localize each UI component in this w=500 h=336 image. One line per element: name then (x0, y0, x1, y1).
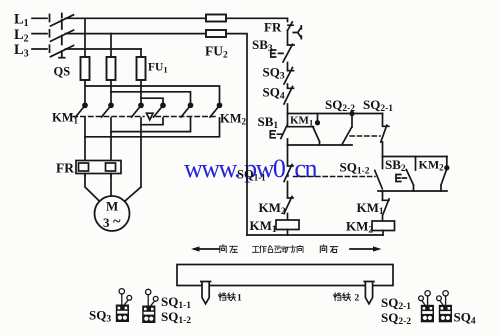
contactor KM2 main contact 1 (154, 103, 166, 117)
label SQ2-2 (325, 97, 355, 114)
self-holding contact KM1 (288, 114, 320, 146)
label xiang-zuo (to left) (220, 245, 237, 253)
svg-text:M: M (106, 199, 118, 214)
wire L3 to drop (66, 48, 142, 50)
coil KM1 (276, 220, 299, 230)
svg-text:3: 3 (103, 215, 110, 230)
label SQ3 bottom (89, 308, 111, 325)
label dang-tie 1 (219, 293, 236, 301)
label SB2 (385, 157, 406, 174)
watermark www.pw0.cn (184, 154, 317, 183)
wire tap L3 to KM2 contact 1 (141, 98, 163, 104)
wire below KM1 c2 (110, 118, 112, 176)
svg-text:~: ~ (113, 214, 121, 230)
limit switch contact SQ4 (284, 87, 294, 105)
limit switch icon SQ4 (437, 291, 452, 323)
label SQ1-2 bottom (161, 309, 191, 326)
limit switch icon SQ1 (142, 289, 158, 323)
arrow left direction (191, 246, 220, 251)
label SQ1-1 bottom (161, 294, 191, 311)
fuse FU2-2 (206, 30, 226, 37)
wire (84, 80, 86, 104)
wire coil KM1 to bottom bus (287, 230, 289, 236)
interlock contact KM1 (383, 199, 390, 221)
dog 2 (stop iron 2) (364, 282, 374, 304)
FR heater element 2 (106, 163, 116, 171)
label SQ2-1 (363, 97, 393, 114)
coil KM2 (372, 221, 395, 231)
svg-text:FR: FR (264, 20, 282, 35)
wire L1 to control (226, 18, 288, 21)
label KM2 main (220, 112, 247, 127)
wire tier separator (415, 157, 417, 171)
wire (287, 84, 289, 88)
wire L2 to left rail (226, 34, 247, 235)
wire tier top (383, 156, 448, 158)
label xiang-you (to right) (320, 245, 337, 253)
wire to motor V (110, 174, 112, 197)
disconnect switch QS pole 1 (51, 15, 74, 26)
label KM2 coil (346, 219, 373, 236)
wire tier bottom (378, 190, 447, 192)
limit switch icon SQ3 (116, 289, 132, 322)
node L2 (14, 27, 29, 45)
contactor KM2 main contact 2 (181, 103, 193, 117)
svg-text:FR: FR (56, 161, 74, 176)
label KM1 coil (250, 218, 277, 235)
mechanical link SQ1 dashed (294, 176, 376, 178)
wire (110, 80, 112, 104)
stop pushbutton SB3 (271, 44, 294, 62)
QS linkage (61, 14, 63, 58)
wire (140, 80, 142, 104)
label FR control (264, 20, 282, 35)
wire L1 lead (32, 15, 50, 22)
svg-text:2: 2 (355, 294, 360, 304)
limit switch contact SQ3 (284, 68, 294, 85)
disconnect switch QS pole 2 (51, 30, 74, 41)
limit switch contact SQ1-1 (284, 145, 293, 198)
wire phase W vertical from L3 (140, 49, 142, 57)
label QS (54, 65, 71, 79)
motor M 3~ (95, 196, 130, 231)
wire branch lower bus (288, 144, 353, 146)
label KM2 interlock (259, 200, 286, 217)
wire L3 lead (32, 45, 50, 52)
wire to motor W (125, 187, 142, 202)
contactor KM1 main contact 3 (132, 103, 144, 117)
worktable (177, 265, 393, 286)
fuse FU1-3 (137, 57, 146, 80)
wire below KM1 c1 (84, 118, 86, 176)
node L1 (14, 12, 29, 30)
wire bottom bus (247, 234, 383, 236)
contactor KM2 main contact 3 (210, 103, 222, 117)
label FU2 (205, 44, 228, 61)
limit switch icon SQ2 (419, 291, 434, 323)
wire KM2 c1 return (141, 118, 163, 125)
thermal relay FR control contact (288, 22, 302, 39)
wire branch top bus (288, 113, 383, 115)
interlock contact KM2 (284, 197, 293, 221)
wire L2 lead (32, 30, 50, 37)
wire tap L2 to KM2 contact 2 (111, 92, 191, 104)
wire (287, 31, 289, 45)
wire phase U vertical from L1 (84, 18, 86, 57)
start pushbutton SB1 (270, 114, 287, 146)
contactor KM1 main contact 2 (102, 103, 114, 117)
label KM1 self-hold (290, 115, 313, 128)
linkage pivot triangle (147, 113, 154, 120)
label FR main (56, 161, 74, 176)
mechanical linkage dashed (73, 116, 218, 118)
svg-text:QS: QS (54, 65, 71, 79)
wire tier to interlock (382, 191, 384, 200)
wire KM2 c3 return (85, 118, 220, 137)
label SQ2-1 bottom (381, 295, 411, 312)
fuse FU2-1 (206, 15, 226, 22)
wire coil KM2 to bottom bus (382, 231, 384, 236)
wire L2 to FU2 (66, 33, 207, 35)
label SB3 (252, 37, 273, 54)
node L3 (14, 42, 29, 60)
wire below KM1 c3 (140, 118, 142, 187)
label SQ1-1 (237, 168, 266, 183)
label SQ4 bottom (454, 310, 476, 327)
label SB1 (258, 114, 279, 131)
svg-text:1: 1 (237, 294, 242, 304)
thermal relay FR heater box (76, 161, 121, 174)
limit switch contact SQ2-1 (381, 114, 389, 157)
label FU1 (148, 62, 168, 75)
FR heater element 1 (79, 163, 89, 171)
wire to branch bus (287, 104, 289, 114)
contactor KM1 main contact 1 (76, 103, 88, 117)
wire (287, 63, 289, 71)
limit switch contact SQ2-2 (342, 112, 354, 145)
label KM2 self-hold (419, 158, 445, 173)
dog 1 (stop iron 1) (201, 282, 211, 304)
disconnect switch QS pole 3 (51, 46, 74, 57)
fuse FU1-2 (107, 57, 116, 80)
label SQ3 (263, 65, 285, 82)
label KM1 main (52, 111, 79, 126)
arrow right direction (350, 246, 382, 251)
label SQ2-2 bottom (381, 310, 411, 327)
label SQ4 (263, 85, 285, 102)
self-holding contact KM2 (441, 157, 449, 192)
label worktable movement direction (252, 245, 303, 252)
wire tap L1 to KM2 contact 3 (85, 86, 220, 104)
label dang-tie 2 (334, 293, 351, 301)
mechanical link SQ2 dashed (350, 135, 380, 137)
wire L1 to FU2 (66, 17, 207, 19)
limit switch contact SQ1-2 (375, 157, 383, 189)
wire phase V vertical from L2 (110, 34, 112, 57)
wire to motor U (85, 174, 100, 202)
wire KM2 c2 return (111, 118, 191, 132)
fuse FU1-1 (81, 57, 90, 80)
svg-text:KM1: KM1 (290, 115, 313, 128)
label KM1 interlock (357, 200, 384, 217)
start pushbutton SB2 (396, 170, 414, 192)
label SQ1-2 (340, 160, 370, 177)
